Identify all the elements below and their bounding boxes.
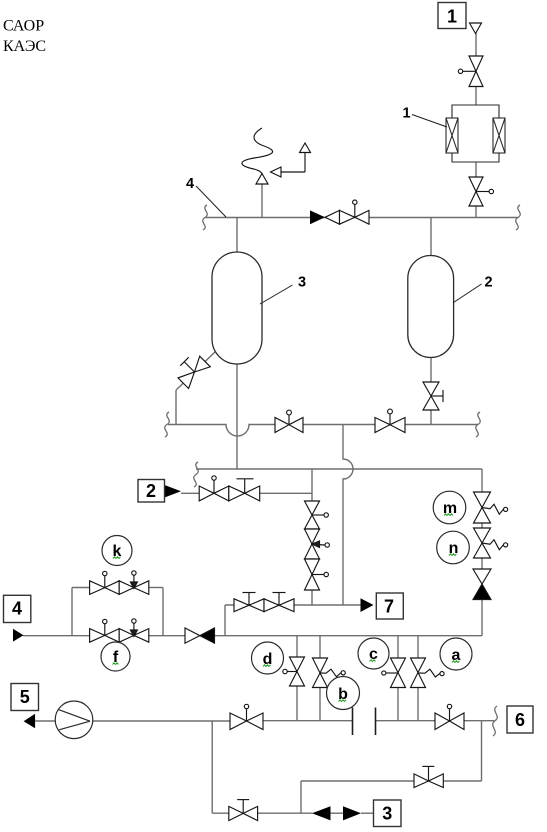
valve b, vertical, zigzag handle (313, 658, 346, 688)
valve m, zigzag handle (474, 492, 508, 523)
header double valve with circle handle (325, 200, 369, 224)
break header right (516, 205, 521, 230)
valve n, zigzag handle (474, 528, 508, 558)
wire: vessel3 drain x=237 (236, 363, 238, 469)
break y469 left (194, 462, 199, 487)
break header left (203, 205, 208, 230)
svg-text:1: 1 (403, 106, 411, 122)
box5 arrow (black left) (24, 714, 35, 729)
circle n (437, 531, 470, 564)
svg-text:6: 6 (515, 710, 525, 730)
column x=312 valve chain: bowtie 1 circle handle (305, 501, 329, 529)
box 6 (507, 706, 533, 733)
squiggle f (113, 663, 119, 665)
wire: valve b drop (319, 636, 321, 658)
row2 valve pair: left circle handle, right T handle (199, 476, 260, 501)
squiggle n (449, 554, 457, 556)
filter element left (446, 118, 458, 153)
wire: drop x=211 (211, 721, 213, 814)
svg-text:2: 2 (146, 481, 156, 501)
circle m (433, 491, 466, 524)
valve d, vertical, circle handle left (283, 657, 305, 686)
vent left-triangle assembly (271, 143, 311, 177)
filter element right (493, 118, 505, 153)
wire: drop x=301 (300, 781, 302, 813)
valve below filters, vertical, handle right (469, 177, 493, 206)
leader 1 (412, 115, 447, 128)
vent triangle on riser x=262 (256, 174, 268, 185)
svg-text:КАЭС: КАЭС (3, 38, 46, 55)
wire: line y=778 (443, 780, 481, 782)
valve c, vertical, circle handle left (382, 658, 406, 688)
squiggle k (113, 557, 121, 559)
circle k (102, 536, 132, 566)
pump circle (55, 701, 93, 739)
box3 arrows (black left+right) (312, 806, 331, 820)
squiggle a (452, 661, 460, 663)
box 7 (376, 593, 403, 619)
wire: filter column x=476 (475, 206, 477, 218)
wire: header y=217.5 (205, 217, 518, 219)
wire: row7 y=605 (224, 605, 226, 636)
check valve right column (bottom half black) (473, 569, 491, 600)
box 5 (11, 684, 39, 711)
wire: vessel2 feed (430, 218, 432, 257)
f-branch valve pair: circle + arrow handles (90, 619, 149, 642)
k-branch valve pair: circle + arrow handles (90, 571, 149, 595)
break y425 right (476, 412, 481, 437)
filter assembly frame (452, 105, 499, 162)
break y425 left (165, 412, 170, 437)
wire: right column x=482 (481, 469, 483, 492)
wire: vessel3 feed (236, 218, 238, 254)
diagonal valve near vessel3 with T handle (178, 356, 210, 388)
leader 3 (260, 285, 293, 304)
box7 arrow (black right) (361, 598, 374, 612)
circle b (327, 677, 360, 710)
wire: line y=425 with hop under vessel3 drain (168, 425, 275, 437)
leader 2 (454, 284, 482, 303)
box4 arrow (black right) (13, 629, 24, 642)
check valve main line (right half black) (185, 628, 215, 643)
circle c (358, 638, 389, 669)
wire: drop x=481.5 (481, 721, 483, 781)
wire: bottom line y=813 (212, 812, 229, 814)
wire: line5 y=721 (35, 720, 55, 722)
svg-text:5: 5 (20, 687, 30, 707)
wire: row2 y=493 (181, 492, 312, 494)
squiggle c (370, 660, 376, 662)
squiggle m (444, 514, 453, 516)
wire: vent riser x=262 (261, 184, 263, 218)
wire: k-branch loop (71, 588, 73, 636)
svg-text:3: 3 (382, 803, 392, 823)
wire: valve a drop (417, 636, 419, 658)
circle d (252, 642, 284, 674)
box 1 (438, 3, 466, 29)
y778 valve, T handle (414, 766, 443, 787)
vessel 2 (408, 256, 454, 358)
line5 valve right, circle handle (435, 704, 464, 729)
valve on y425 right, circle handle (375, 409, 405, 432)
svg-text:7: 7 (384, 597, 394, 617)
bottom line valve, T handle (229, 800, 258, 821)
flange gap bars (353, 708, 376, 736)
circle a (440, 638, 472, 670)
svg-text:3: 3 (298, 275, 306, 291)
line5 valve left, circle handle (230, 704, 263, 729)
svg-text:2: 2 (485, 275, 493, 291)
wire: diagonal drain to x=176 (204, 351, 216, 363)
column x=312 valve chain: bowtie 2 arrow handle (305, 529, 330, 559)
vent squiggle above riser (242, 128, 273, 174)
wire: main line y=635.7 (23, 635, 90, 637)
box 4 (4, 595, 31, 622)
header check arrow (black) (310, 210, 325, 224)
leader 4 (196, 186, 226, 217)
box 3 (374, 800, 402, 827)
box2 arrow (black right) (165, 485, 182, 498)
valve top (under box 1), vertical, handle left (458, 56, 483, 87)
box 2 (138, 480, 165, 503)
circle f (101, 642, 130, 671)
title text (3, 18, 46, 56)
squiggle d (263, 665, 271, 667)
svg-text:4: 4 (186, 176, 194, 192)
break y721 right (493, 706, 498, 736)
valve a, vertical, zigzag handle (411, 658, 445, 688)
wire: valve d drop (296, 636, 298, 657)
wire: valve c drop (397, 636, 399, 658)
svg-text:4: 4 (12, 599, 22, 619)
wire: line y=469 (196, 468, 482, 470)
column x=312 valve chain: bowtie 3 circle handle (305, 559, 329, 590)
svg-text:САОР: САОР (3, 18, 44, 35)
vessel2 drain valve, vertical, T handle right (423, 382, 443, 410)
wire: vessel2 drain (430, 357, 432, 382)
row7 valve pair with T handles (234, 593, 294, 612)
squiggle b (339, 700, 347, 702)
wire: column x=312 (311, 469, 313, 501)
vessel 3 (212, 252, 262, 364)
valve on y425 left, circle handle (275, 410, 303, 432)
wire: riser x=343 with hop over y=469 (343, 425, 353, 606)
svg-text:1: 1 (447, 7, 457, 27)
vent triangle under box 1 (470, 23, 482, 34)
